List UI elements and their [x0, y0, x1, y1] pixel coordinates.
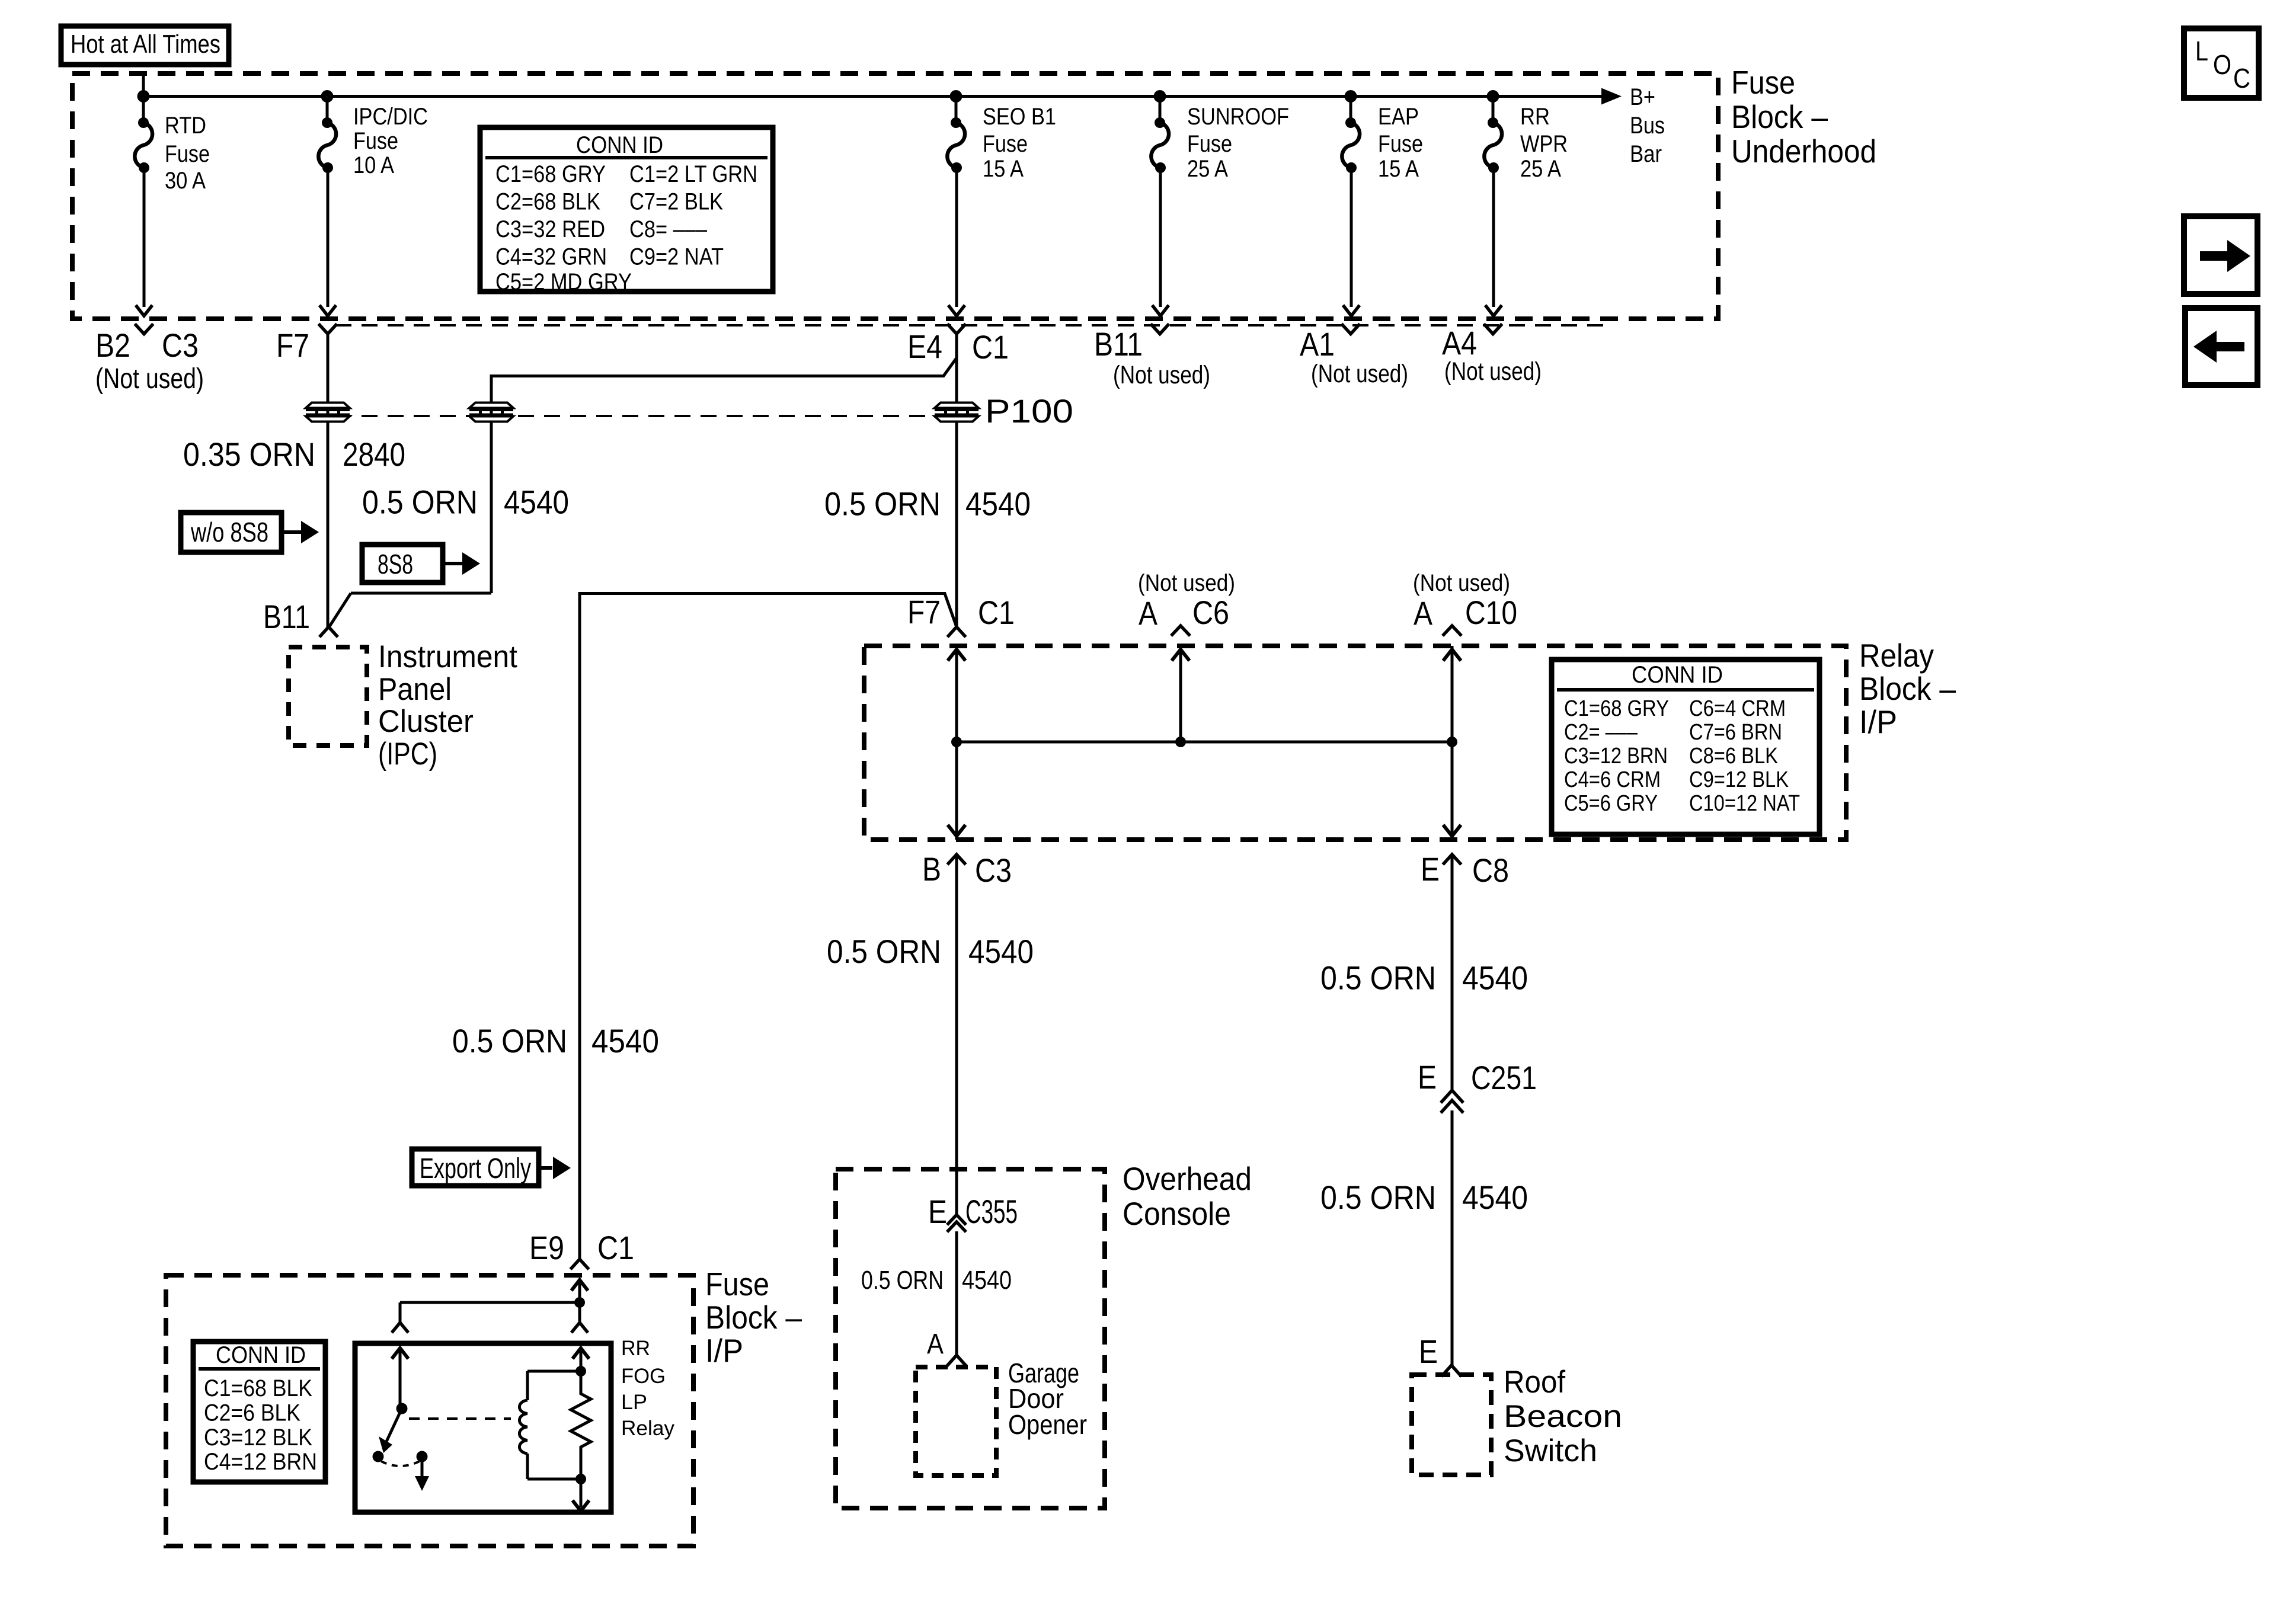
svg-text:Relay: Relay [1859, 637, 1934, 674]
svg-text:4540: 4540 [968, 933, 1034, 970]
svg-text:8S8: 8S8 [378, 549, 413, 580]
svg-text:C1=68 GRY: C1=68 GRY [1564, 696, 1669, 721]
svg-text:C9=2 NAT: C9=2 NAT [629, 244, 724, 270]
svg-text:4540: 4540 [504, 484, 569, 521]
svg-text:FOG: FOG [621, 1365, 666, 1388]
svg-text:Fuse: Fuse [1378, 131, 1423, 157]
svg-text:0.5 ORN: 0.5 ORN [362, 484, 478, 521]
svg-text:C5=2 MD GRY: C5=2 MD GRY [495, 269, 632, 295]
svg-text:O: O [2213, 49, 2231, 80]
svg-text:RTD: RTD [165, 113, 206, 139]
svg-text:Hot at All Times: Hot at All Times [71, 30, 220, 59]
svg-text:w/o 8S8: w/o 8S8 [190, 517, 268, 548]
svg-text:C6=4 CRM: C6=4 CRM [1689, 696, 1786, 721]
svg-text:(Not used): (Not used) [1311, 360, 1408, 388]
svg-text:Block –: Block – [705, 1299, 802, 1336]
svg-text:RR: RR [621, 1337, 650, 1360]
svg-text:B+: B+ [1630, 84, 1655, 110]
svg-text:0.5 ORN: 0.5 ORN [452, 1022, 567, 1060]
svg-text:25 A: 25 A [1187, 156, 1228, 182]
svg-text:C3: C3 [162, 327, 199, 364]
svg-text:(Not used): (Not used) [1444, 357, 1542, 386]
svg-text:C6: C6 [1192, 594, 1229, 631]
svg-text:C9=12 BLK: C9=12 BLK [1689, 767, 1789, 792]
svg-text:C8: C8 [1472, 852, 1509, 889]
svg-text:C3=12 BLK: C3=12 BLK [204, 1425, 312, 1451]
svg-text:P100: P100 [985, 392, 1073, 430]
svg-text:C4=12 BRN: C4=12 BRN [204, 1449, 317, 1475]
svg-text:(IPC): (IPC) [378, 737, 437, 772]
svg-text:C1: C1 [972, 328, 1009, 366]
svg-text:Switch: Switch [1504, 1433, 1597, 1468]
svg-text:Block –: Block – [1859, 670, 1956, 707]
svg-text:L: L [2195, 36, 2208, 66]
svg-text:Relay: Relay [621, 1417, 675, 1440]
svg-text:(Not used): (Not used) [1113, 361, 1210, 389]
svg-text:Instrument: Instrument [378, 639, 517, 674]
svg-text:0.35 ORN: 0.35 ORN [183, 436, 315, 473]
svg-text:I/P: I/P [705, 1332, 743, 1369]
svg-text:B11: B11 [263, 598, 310, 635]
svg-text:Cluster: Cluster [378, 704, 474, 739]
svg-text:B11: B11 [1094, 325, 1143, 363]
svg-text:EAP: EAP [1378, 104, 1419, 130]
svg-text:C10=12 NAT: C10=12 NAT [1689, 791, 1800, 816]
svg-text:C2=68 BLK: C2=68 BLK [495, 189, 600, 215]
svg-text:Fuse: Fuse [1731, 64, 1795, 101]
svg-text:C1=68 BLK: C1=68 BLK [204, 1375, 312, 1401]
svg-text:E: E [1421, 850, 1440, 888]
svg-text:15 A: 15 A [1378, 156, 1419, 182]
svg-text:F7: F7 [276, 327, 309, 364]
svg-text:Block –: Block – [1731, 98, 1828, 135]
svg-text:C1=2 LT GRN: C1=2 LT GRN [629, 161, 757, 187]
svg-text:C2=6 BLK: C2=6 BLK [204, 1400, 300, 1426]
svg-text:E4: E4 [907, 328, 942, 365]
svg-text:C8= –––: C8= ––– [629, 216, 708, 242]
svg-text:0.5 ORN: 0.5 ORN [827, 933, 941, 970]
svg-text:C4=32 GRN: C4=32 GRN [495, 244, 607, 270]
svg-text:10 A: 10 A [353, 152, 394, 178]
svg-text:C1: C1 [978, 594, 1015, 631]
svg-text:C5=6 GRY: C5=6 GRY [1564, 791, 1658, 816]
svg-text:E: E [1418, 1058, 1437, 1096]
svg-text:E: E [1419, 1333, 1438, 1370]
svg-text:C10: C10 [1465, 594, 1517, 631]
svg-text:RR: RR [1520, 104, 1550, 130]
svg-text:Roof: Roof [1504, 1365, 1565, 1400]
svg-text:Underhood: Underhood [1731, 133, 1876, 169]
svg-text:CONN ID: CONN ID [576, 132, 663, 158]
svg-text:25 A: 25 A [1520, 156, 1561, 182]
svg-text:Console: Console [1123, 1195, 1231, 1232]
svg-text:WPR: WPR [1520, 131, 1568, 157]
svg-text:0.5 ORN: 0.5 ORN [1320, 959, 1436, 997]
svg-text:LP: LP [621, 1391, 647, 1414]
svg-text:C251: C251 [1471, 1059, 1537, 1096]
svg-text:A1: A1 [1300, 325, 1335, 363]
svg-text:(Not used): (Not used) [95, 363, 204, 395]
svg-text:C7=6 BRN: C7=6 BRN [1689, 720, 1782, 745]
svg-text:C7=2 BLK: C7=2 BLK [629, 189, 723, 215]
svg-text:A: A [1414, 594, 1433, 632]
svg-text:A: A [927, 1329, 944, 1360]
svg-text:E9: E9 [529, 1229, 564, 1266]
svg-text:B2: B2 [95, 327, 130, 364]
svg-text:C3: C3 [975, 852, 1012, 889]
svg-text:0.5 ORN: 0.5 ORN [824, 485, 941, 523]
svg-text:C2= –––: C2= ––– [1564, 720, 1638, 745]
svg-text:A: A [1139, 594, 1158, 632]
svg-text:(Not used): (Not used) [1413, 570, 1510, 596]
svg-text:F7: F7 [907, 593, 941, 630]
svg-text:A4: A4 [1442, 324, 1477, 361]
svg-text:C4=6 CRM: C4=6 CRM [1564, 767, 1661, 792]
svg-text:4540: 4540 [591, 1022, 659, 1060]
svg-text:E: E [928, 1193, 947, 1230]
svg-text:C: C [2233, 63, 2250, 94]
svg-text:Panel: Panel [378, 672, 452, 707]
svg-text:Overhead: Overhead [1123, 1160, 1252, 1197]
svg-text:Fuse: Fuse [353, 128, 398, 154]
svg-text:2840: 2840 [343, 436, 405, 473]
svg-text:Fuse: Fuse [983, 131, 1028, 157]
svg-text:SEO B1: SEO B1 [983, 104, 1056, 130]
svg-text:Opener: Opener [1008, 1409, 1087, 1440]
svg-text:0.5 ORN: 0.5 ORN [1320, 1179, 1436, 1216]
svg-text:(Not used): (Not used) [1138, 570, 1235, 596]
svg-text:C3=32 RED: C3=32 RED [495, 216, 605, 242]
svg-text:C1: C1 [597, 1229, 634, 1266]
svg-text:C3=12 BRN: C3=12 BRN [1564, 744, 1668, 769]
svg-text:Bar: Bar [1630, 141, 1662, 167]
svg-text:4540: 4540 [1462, 959, 1528, 997]
svg-text:C355: C355 [965, 1193, 1018, 1230]
svg-text:Fuse: Fuse [165, 141, 210, 167]
svg-text:Export Only: Export Only [420, 1153, 531, 1185]
svg-text:Beacon: Beacon [1504, 1399, 1622, 1434]
svg-text:CONN ID: CONN ID [216, 1342, 306, 1368]
svg-text:SUNROOF: SUNROOF [1187, 104, 1289, 130]
svg-text:C1=68 GRY: C1=68 GRY [495, 161, 606, 187]
svg-text:Fuse: Fuse [705, 1266, 769, 1302]
svg-text:15 A: 15 A [983, 156, 1024, 182]
svg-text:4540: 4540 [962, 1266, 1012, 1295]
svg-text:4540: 4540 [965, 485, 1031, 523]
svg-text:0.5 ORN: 0.5 ORN [861, 1266, 944, 1295]
svg-text:B: B [922, 850, 941, 888]
svg-text:30 A: 30 A [165, 168, 206, 194]
svg-text:C8=6 BLK: C8=6 BLK [1689, 744, 1778, 769]
svg-text:CONN ID: CONN ID [1632, 662, 1723, 688]
svg-text:Fuse: Fuse [1187, 131, 1232, 157]
svg-text:IPC/DIC: IPC/DIC [353, 104, 428, 130]
svg-text:Bus: Bus [1630, 113, 1665, 139]
svg-text:I/P: I/P [1859, 703, 1897, 740]
svg-text:4540: 4540 [1462, 1179, 1528, 1216]
